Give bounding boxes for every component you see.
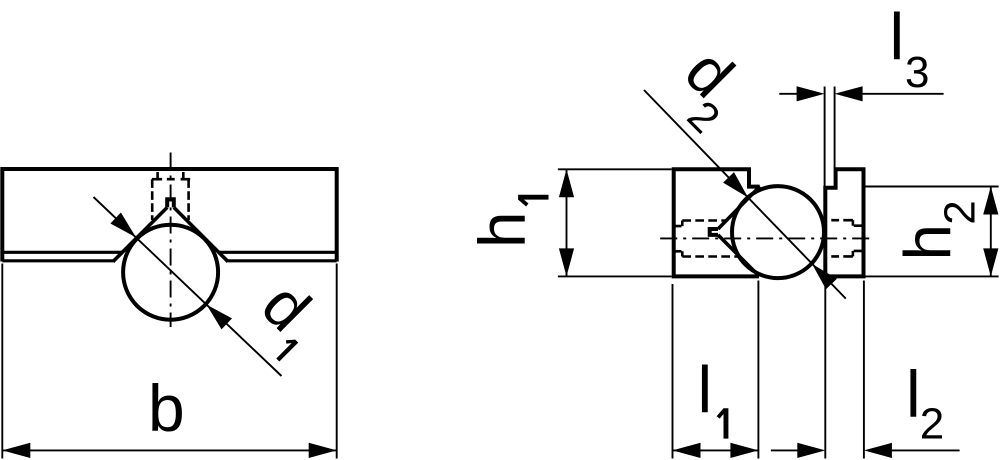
side left block outline bbox=[674, 169, 760, 276]
svg-text:h: h bbox=[891, 224, 965, 261]
cone flank left bbox=[113, 207, 167, 261]
label h1 subscript bbox=[518, 195, 548, 207]
hidden hole upper line right bbox=[831, 219, 853, 222]
l3 extension left bbox=[824, 87, 826, 187]
l2 dimension tail left bbox=[771, 449, 800, 451]
svg-text:2: 2 bbox=[920, 400, 944, 449]
svg-text:l: l bbox=[906, 357, 921, 431]
h2 extension bottom bbox=[866, 275, 999, 277]
h1 extension top bbox=[558, 168, 672, 170]
d1 arrow upper bbox=[110, 213, 135, 238]
hidden hole step right bbox=[852, 220, 855, 256]
l1 arrow left bbox=[673, 443, 701, 458]
side cone flank upper bbox=[718, 186, 760, 229]
hidden hole entry right bbox=[854, 226, 863, 251]
cone flank right bbox=[174, 207, 228, 261]
h2 dimension line bbox=[990, 187, 992, 277]
h2 arrow bottom bbox=[983, 248, 998, 276]
h1 arrow top bbox=[559, 169, 574, 197]
l2 extension left bbox=[824, 284, 826, 459]
vertical centerline bbox=[170, 153, 172, 328]
svg-text:b: b bbox=[148, 371, 185, 445]
hidden hole inner walls bbox=[158, 172, 184, 178]
d1 arrow lower bbox=[207, 305, 233, 330]
hole circle d1 bbox=[123, 225, 218, 320]
b extension right bbox=[336, 264, 338, 459]
horizontal centerline bbox=[660, 237, 874, 239]
hidden hole step left bbox=[681, 221, 684, 257]
h2 extension top bbox=[866, 186, 999, 188]
hidden hole lower line right bbox=[831, 255, 853, 258]
d2 dimension line bbox=[644, 90, 846, 299]
hidden hole step line bbox=[152, 178, 190, 181]
l3 arrow left bbox=[797, 86, 825, 101]
svg-text:2: 2 bbox=[936, 200, 985, 224]
hidden hole lower line left bbox=[682, 255, 739, 258]
svg-text:l: l bbox=[698, 352, 713, 426]
d2 arrow lower bbox=[812, 264, 837, 289]
l1 arrow right bbox=[730, 443, 758, 458]
svg-text:3: 3 bbox=[905, 48, 929, 97]
side cone tip bracket bbox=[710, 229, 718, 235]
l3 dimension tail right bbox=[860, 93, 944, 95]
l2 dimension tail right bbox=[888, 449, 960, 451]
l2 arrow right bbox=[864, 443, 892, 458]
lower split line bbox=[2, 259, 336, 262]
d2 arrow upper bbox=[723, 172, 748, 197]
h1 arrow bottom bbox=[559, 248, 574, 276]
b arrow left bbox=[2, 443, 30, 458]
l2 arrow left bbox=[797, 443, 825, 458]
l3 arrow right bbox=[835, 86, 863, 101]
svg-text:h: h bbox=[465, 211, 539, 248]
hidden hole entry left bbox=[674, 226, 682, 251]
b dimension line bbox=[2, 449, 336, 451]
hole circle d2 bbox=[732, 186, 824, 278]
l3 dimension tail left bbox=[779, 93, 800, 95]
h1 dimension line bbox=[566, 169, 568, 276]
side cone flank lower bbox=[718, 235, 759, 277]
hidden hole upper line left bbox=[682, 219, 726, 222]
label d1 subscript bbox=[272, 335, 298, 361]
l3 extension right bbox=[834, 87, 836, 169]
b arrow right bbox=[309, 443, 337, 458]
hidden hole outer wall right bbox=[187, 179, 190, 220]
front block outline bbox=[2, 169, 336, 262]
hidden hole outer wall left bbox=[151, 179, 154, 220]
d1 dimension line bbox=[94, 197, 282, 376]
h2 arrow top bbox=[983, 187, 998, 215]
label l1 subscript bbox=[717, 408, 729, 438]
l2 extension right bbox=[863, 281, 865, 459]
b extension left bbox=[1, 264, 3, 459]
l1 extension right bbox=[757, 281, 759, 459]
h1 extension bottom bbox=[558, 275, 672, 277]
l1 dimension line bbox=[673, 449, 759, 451]
cone tip bracket bbox=[167, 199, 174, 207]
svg-text:l: l bbox=[890, 0, 905, 74]
upper split line bbox=[2, 251, 336, 254]
side right block outline bbox=[825, 169, 863, 276]
l1 extension left bbox=[672, 284, 674, 459]
